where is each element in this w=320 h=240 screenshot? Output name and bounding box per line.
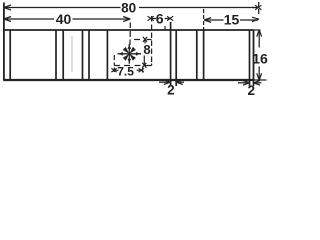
right edge extension below	[253, 80, 255, 86]
faint scan ghost line	[71, 36, 73, 72]
cut line x=196.8	[196, 30, 198, 80]
svg-text:2: 2	[167, 82, 175, 97]
cut line x=56	[55, 30, 57, 80]
dimension 2 (right) arrows	[238, 81, 262, 86]
svg-text:7.5: 7.5	[117, 64, 134, 78]
svg-text:8: 8	[143, 42, 150, 57]
dimension 40 right arrow	[123, 17, 130, 22]
dimension 16 line with arrows	[258, 30, 260, 81]
svg-text:6: 6	[156, 11, 164, 27]
cut line x=176.2 with extension below	[175, 30, 177, 86]
cut line x=10.2	[9, 30, 11, 80]
dimension 7.5 arrows	[111, 67, 143, 73]
cut line x=203.6 with dashed extension above	[203, 30, 205, 80]
cut line x=249.5 with extension below	[249, 30, 251, 86]
center dashed line above punch mark	[129, 23, 131, 46]
cut line x=89	[88, 30, 90, 80]
dimension 40 line	[5, 18, 130, 20]
cut line x=170.6 with extensions	[170, 22, 172, 86]
dimension 6 arrows (crossing style)	[148, 16, 157, 21]
cut line x=107.4	[106, 30, 108, 80]
svg-text:40: 40	[56, 11, 72, 27]
svg-text:2: 2	[247, 83, 255, 98]
dimension 80 left arrow	[4, 5, 11, 10]
svg-text:15: 15	[224, 11, 240, 27]
dimension 80 line	[5, 7, 258, 9]
punch mark star	[118, 44, 142, 64]
dimension 15 right arrow	[252, 17, 259, 21]
short extension dash above bar at x=165	[164, 26, 166, 31]
bottom edge extension right	[254, 79, 267, 81]
dimension 80 right arrow (crossing style)	[252, 5, 262, 10]
cut line x=82.5	[82, 30, 84, 80]
dimension 8 arrows	[142, 37, 147, 68]
dashed square around punch mark	[114, 16, 151, 72]
cut line x=63.2	[62, 30, 64, 80]
top edge extension right	[254, 29, 261, 31]
svg-text:80: 80	[121, 1, 136, 16]
dimension 40 left arrow	[4, 17, 11, 22]
svg-text:16: 16	[252, 50, 268, 66]
dimension 2 (left) arrows	[159, 80, 184, 85]
dimension 15 left arrow	[204, 18, 211, 23]
bar outline (workpiece strip)	[3, 3, 5, 81]
dimension 15 line	[204, 19, 258, 21]
right extension dashes top	[258, 2, 260, 16]
